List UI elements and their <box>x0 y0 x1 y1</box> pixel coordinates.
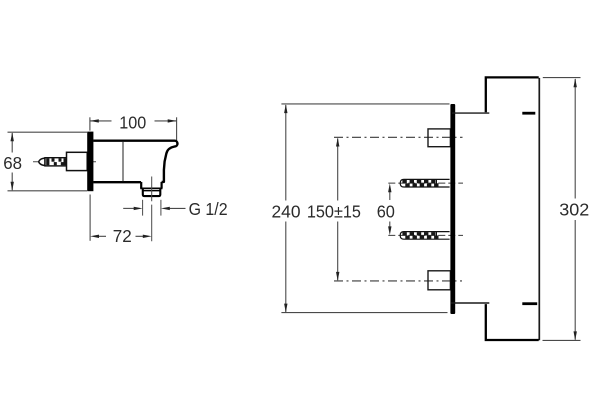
upper fixing screw outline <box>400 179 449 187</box>
dim 240 arrow down <box>284 304 287 313</box>
dim 100 arrow left <box>90 119 99 122</box>
dim 302 arrow down <box>574 331 577 340</box>
dim 72 left extension line <box>89 195 91 241</box>
inlet centerline <box>33 161 96 163</box>
lower screw thread hatch <box>402 232 438 239</box>
upper screw centerline <box>388 182 463 184</box>
outlet G1/2 thread end <box>143 188 161 196</box>
upper bracket centerline (dash-dot) <box>334 136 463 138</box>
dim G1/2 left arrowhead <box>134 207 143 210</box>
dim 100 arrow right <box>168 119 177 122</box>
dim G1/2 right arrow line <box>169 207 186 209</box>
top end block <box>486 77 539 112</box>
dim G1/2 left arrow line <box>123 207 134 209</box>
dim 100 left extension tick <box>89 117 91 130</box>
svg-text:G 1/2: G 1/2 <box>189 199 228 219</box>
holder body internal seam line <box>122 142 124 181</box>
dim 60 upper arrow <box>389 190 391 200</box>
wall mounting rail (filled bar) <box>450 104 455 314</box>
lower fixing screw outline <box>400 232 449 240</box>
column body bottom edge <box>451 302 490 304</box>
dim 302 bottom extension line <box>543 339 581 341</box>
svg-text:240: 240 <box>272 202 301 222</box>
dim 68 bottom extension line <box>8 190 88 192</box>
dim 60 upper arrowhead <box>388 183 391 192</box>
dim 72 arrow left <box>90 235 99 238</box>
svg-text:100: 100 <box>119 113 146 133</box>
upper screw thread hatch <box>402 180 438 187</box>
dim 68 dimension line <box>11 133 13 190</box>
column right edge line <box>538 78 540 340</box>
dim G1/2 right tick <box>160 200 162 216</box>
outlet neck left edge <box>140 182 142 188</box>
outlet centerline <box>151 177 153 242</box>
dim 302 arrow up <box>574 78 577 87</box>
column body top edge thick segment <box>522 112 535 115</box>
collar <box>67 152 88 170</box>
dim 240 dimension line <box>285 105 287 312</box>
thread marks <box>46 158 66 165</box>
dim 150 dimension line <box>337 139 339 281</box>
holder body outline with hook <box>93 141 177 182</box>
svg-text:302: 302 <box>559 200 589 220</box>
dim 302 dimension line <box>574 79 576 340</box>
dim G1/2 left tick <box>142 200 144 216</box>
dim 150 arrow up <box>336 138 339 147</box>
wall plate (escutcheon, filled) <box>87 132 93 192</box>
outlet thread relief line <box>143 190 161 192</box>
dim 60 lower arrow <box>389 222 391 230</box>
lower screw centerline <box>388 234 463 236</box>
dim 60 lower arrowhead <box>388 226 391 235</box>
dim G1/2 right arrowhead <box>161 207 170 210</box>
outlet groove line <box>140 187 162 189</box>
dim 68 arrow down <box>11 182 14 191</box>
dim 72 arrow right <box>143 235 152 238</box>
dim 302 top extension line <box>543 77 581 79</box>
dim 240 arrow up <box>284 104 287 113</box>
outlet neck right edge <box>161 182 163 188</box>
dim 68 top extension line <box>8 131 88 133</box>
upper screw shank line <box>436 179 438 187</box>
dim 240 top extension line <box>281 103 449 105</box>
holder body bottom edge <box>93 181 141 183</box>
dim 100 dimension line <box>90 120 177 122</box>
dim 240 bottom extension line <box>281 312 447 314</box>
bottom end block <box>486 304 539 340</box>
lower mounting bracket <box>428 271 450 290</box>
dim 72 dimension line <box>98 235 143 237</box>
threaded inlet nipple tip cone <box>39 158 45 166</box>
dim 150 arrow down <box>336 272 339 281</box>
dim 100 right extension tick <box>176 117 178 143</box>
lower bracket centerline (dash-dot) <box>334 280 462 282</box>
svg-text:60: 60 <box>377 202 395 222</box>
svg-text:72: 72 <box>113 226 132 246</box>
svg-text:68: 68 <box>3 153 22 173</box>
svg-text:150±15: 150±15 <box>307 202 361 222</box>
threaded inlet nipple body <box>45 158 67 166</box>
dim 68 arrow up <box>11 132 14 141</box>
lower screw shank line <box>436 232 438 240</box>
column body bottom edge thick segment <box>522 302 537 305</box>
upper mounting bracket <box>428 129 450 147</box>
column body top edge <box>452 112 489 114</box>
